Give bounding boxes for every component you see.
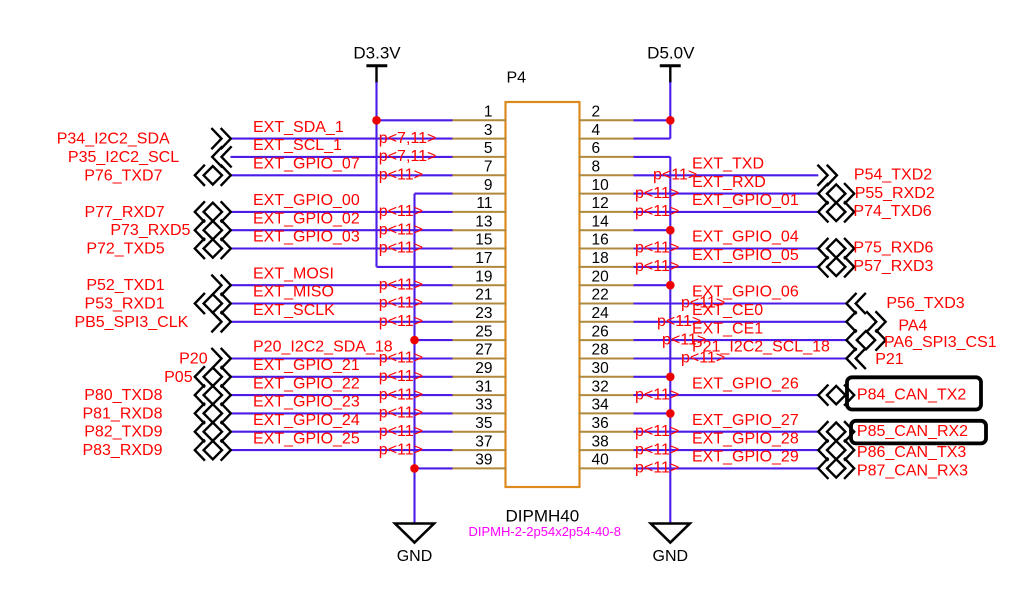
wire pin 23 — [231, 321, 453, 323]
junction D3.3V/pin1 — [372, 116, 381, 125]
pin name label PB5_SPI3_CLK — [74, 314, 188, 331]
pin 7 stub and number — [452, 159, 507, 176]
net label EXT_GPIO_04 — [692, 229, 799, 246]
pin 32 stub and number — [579, 378, 635, 395]
svg-text:EXT_SDA_1: EXT_SDA_1 — [253, 119, 344, 136]
junction left GND/pin39 — [410, 464, 419, 473]
page ref p<11> on pin 33 wire — [379, 405, 423, 422]
port symbol left pin 35 (bidirectional diamond) — [195, 422, 231, 441]
svg-text:P56_TXD3: P56_TXD3 — [886, 295, 964, 312]
svg-text:p<11>: p<11> — [635, 441, 679, 458]
net label EXT_GPIO_05 — [692, 247, 799, 264]
svg-text:EXT_GPIO_28: EXT_GPIO_28 — [692, 430, 799, 447]
page ref p<11> on pin 38 wire — [635, 441, 679, 458]
svg-text:EXT_GPIO_00: EXT_GPIO_00 — [253, 192, 360, 209]
svg-text:p<11>: p<11> — [379, 386, 423, 403]
pin 15 stub and number — [452, 232, 507, 249]
pin 2 stub and number — [579, 104, 635, 121]
svg-text:33: 33 — [475, 397, 492, 414]
wire pin 25 — [415, 339, 453, 341]
pin name label P34_I2C2_SDA — [57, 131, 170, 148]
wire pin 24 — [634, 321, 847, 323]
svg-text:31: 31 — [475, 378, 492, 395]
svg-text:4: 4 — [592, 122, 601, 139]
svg-text:EXT_GPIO_03: EXT_GPIO_03 — [253, 229, 360, 246]
page ref p<11> on pin 22 wire — [681, 295, 725, 312]
pin 30 stub and number — [579, 360, 635, 377]
svg-text:p<11>: p<11> — [662, 331, 706, 348]
pin name label P05 — [164, 369, 193, 386]
page ref p<11> on pin 40 wire — [635, 460, 679, 477]
page ref p<7,11> on pin 3 wire — [379, 130, 437, 147]
svg-text:PB5_SPI3_CLK: PB5_SPI3_CLK — [74, 314, 188, 331]
pin 36 stub and number — [579, 415, 635, 432]
port symbol left pin 33 (bidirectional diamond) — [195, 404, 231, 423]
page ref p<11> on pin 21 wire — [379, 295, 423, 312]
svg-text:EXT_GPIO_27: EXT_GPIO_27 — [692, 412, 799, 429]
pin 8 stub and number — [579, 159, 635, 176]
net label EXT_GPIO_25 — [253, 430, 360, 447]
svg-text:P80_TXD8: P80_TXD8 — [84, 387, 162, 404]
junction right GND/pin20 — [666, 281, 675, 290]
port symbol right pin 32 — [818, 385, 854, 404]
net label EXT_GPIO_27 — [692, 412, 799, 429]
svg-text:P35_I2C2_SCL: P35_I2C2_SCL — [68, 149, 179, 166]
svg-text:p<11>: p<11> — [635, 423, 679, 440]
svg-text:11: 11 — [476, 195, 492, 212]
svg-text:28: 28 — [592, 342, 609, 359]
svg-text:p<11>: p<11> — [635, 258, 679, 275]
wire pin 15 — [231, 247, 453, 249]
pin 37 stub and number — [452, 433, 507, 450]
svg-text:p<11>: p<11> — [635, 460, 679, 477]
pin 29 stub and number — [452, 360, 507, 377]
port symbol right pin 40 — [818, 459, 854, 478]
svg-text:P57_RXD3: P57_RXD3 — [853, 258, 933, 275]
svg-text:5: 5 — [484, 140, 493, 157]
svg-text:p<11>: p<11> — [379, 350, 423, 367]
svg-text:EXT_GPIO_26: EXT_GPIO_26 — [692, 375, 799, 392]
svg-text:13: 13 — [475, 213, 492, 230]
svg-text:21: 21 — [475, 287, 492, 304]
wire pin 9 — [415, 193, 453, 195]
pin name label P80_TXD8 — [84, 387, 162, 404]
net label EXT_MISO — [253, 284, 334, 301]
svg-text:P34_I2C2_SDA: P34_I2C2_SDA — [57, 131, 170, 148]
page ref p<11> on pin 24 wire — [657, 313, 701, 330]
port symbol right pin 26 — [846, 330, 885, 349]
pin 5 stub and number — [452, 140, 507, 157]
port symbol right pin 18 — [818, 257, 854, 276]
wire pin 21 — [231, 302, 453, 304]
pin name label P81_RXD8 — [82, 405, 162, 422]
svg-text:P83_RXD9: P83_RXD9 — [82, 442, 162, 459]
pin name label P75_RXD6 — [853, 240, 933, 257]
pin 14 stub and number — [579, 213, 635, 230]
port symbol left pin 37 (bidirectional diamond) — [195, 440, 231, 459]
pin name label P82_TXD9 — [84, 424, 162, 441]
net label EXT_GPIO_23 — [253, 394, 360, 411]
footprint label DIPMH-2-2p54x2p54-40-8 — [469, 524, 621, 539]
net label EXT_GPIO_01 — [692, 192, 799, 209]
page ref p<11> on pin 19 wire — [379, 276, 423, 293]
pin name label PA4 — [898, 318, 927, 335]
svg-text:PA4: PA4 — [898, 318, 927, 335]
pin 12 stub and number — [579, 195, 635, 212]
page ref p<11> on pin 23 wire — [379, 313, 423, 330]
wire pin 39 — [415, 467, 453, 469]
page ref p<11> on pin 29 wire — [379, 368, 423, 385]
wire pin 11 — [231, 211, 453, 213]
svg-text:26: 26 — [592, 323, 609, 340]
pin name label P53_RXD1 — [85, 296, 165, 313]
pin 1 stub and number — [452, 104, 507, 121]
net label EXT_GPIO_03 — [253, 229, 360, 246]
svg-text:p<11>: p<11> — [653, 167, 697, 184]
svg-text:P52_TXD1: P52_TXD1 — [86, 277, 164, 294]
pin 20 stub and number — [579, 268, 635, 285]
wire pin 40 — [634, 467, 819, 469]
svg-text:p<11>: p<11> — [635, 185, 679, 202]
port symbol left pin 3 (output arrows) — [212, 129, 231, 148]
wire pin 10 — [634, 193, 819, 195]
svg-text:38: 38 — [592, 433, 609, 450]
wire pin 38 — [634, 449, 819, 451]
port symbol left pin 27 (output arrows) — [212, 349, 231, 368]
svg-text:10: 10 — [592, 177, 610, 194]
wire pin 13 — [231, 229, 453, 231]
svg-text:25: 25 — [475, 323, 492, 340]
svg-text:EXT_GPIO_21: EXT_GPIO_21 — [253, 357, 360, 374]
svg-text:P72_TXD5: P72_TXD5 — [86, 241, 164, 258]
net label EXT_TXD — [692, 156, 764, 173]
port symbol left pin 11 (bidirectional diamond) — [195, 202, 231, 221]
pin 3 stub and number — [452, 122, 507, 139]
wire pin 5 — [231, 156, 453, 158]
svg-text:EXT_MOSI: EXT_MOSI — [253, 265, 334, 282]
pin 23 stub and number — [452, 305, 507, 322]
wire pin 28 — [634, 357, 847, 359]
wire pin 37 — [231, 449, 453, 451]
svg-text:p<11>: p<11> — [379, 203, 423, 220]
net label EXT_GPIO_06 — [692, 284, 799, 301]
port symbol right pin 36 — [818, 422, 854, 441]
pin 33 stub and number — [452, 397, 507, 414]
junction right GND/pin14 — [666, 226, 675, 235]
pin 39 stub and number — [452, 452, 507, 469]
svg-text:p<11>: p<11> — [681, 295, 725, 312]
svg-text:EXT_GPIO_29: EXT_GPIO_29 — [692, 449, 799, 466]
svg-text:23: 23 — [475, 305, 492, 322]
svg-text:EXT_GPIO_04: EXT_GPIO_04 — [692, 229, 799, 246]
ground GND left — [395, 524, 434, 566]
svg-text:p<11>: p<11> — [635, 240, 679, 257]
svg-text:35: 35 — [475, 415, 492, 432]
net label EXT_GPIO_22 — [253, 375, 360, 392]
pin 24 stub and number — [579, 305, 635, 322]
svg-text:p<11>: p<11> — [635, 203, 679, 220]
page ref p<11> on pin 37 wire — [379, 441, 423, 458]
svg-text:p<11>: p<11> — [379, 221, 423, 238]
connector P4 body (DIPMH40) — [506, 102, 580, 487]
ground GND right — [651, 524, 690, 566]
net label EXT_GPIO_02 — [253, 210, 360, 227]
junction right GND/pin30 — [666, 373, 675, 382]
pin 19 stub and number — [452, 268, 507, 285]
wire pin 36 — [634, 431, 819, 433]
pin 4 stub and number — [579, 122, 635, 139]
port symbol left pin 15 (bidirectional diamond) — [195, 239, 231, 258]
pin 6 stub and number — [579, 140, 635, 157]
svg-text:P81_RXD8: P81_RXD8 — [82, 405, 162, 422]
svg-text:34: 34 — [592, 397, 610, 414]
pin name label P86_CAN_TX3 — [857, 444, 966, 461]
pin name label P72_TXD5 — [86, 241, 164, 258]
svg-text:P4: P4 — [507, 70, 527, 87]
pin 22 stub and number — [579, 287, 635, 304]
highlight box P84_CAN_TX2 — [847, 377, 981, 409]
svg-text:EXT_MISO: EXT_MISO — [253, 284, 334, 301]
wire pin 32 — [634, 394, 819, 396]
net label EXT_CE1 — [692, 320, 763, 337]
page ref p<11> on pin 8 wire — [653, 167, 697, 184]
port symbol right pin 22 — [846, 294, 865, 313]
net label EXT_GPIO_28 — [692, 430, 799, 447]
page ref p<11> on pin 16 wire — [635, 240, 679, 257]
svg-text:7: 7 — [484, 159, 493, 176]
wire left GND vertical bus (pin9 down to GND) — [413, 194, 415, 524]
wire D3.3V vertical bus (pin1 to pin17) — [375, 82, 377, 267]
pin 28 stub and number — [579, 342, 635, 359]
junction right GND/pin34 — [666, 409, 675, 418]
wire pin 33 — [231, 412, 453, 414]
page ref p<11> on pin 35 wire — [379, 423, 423, 440]
port symbol left pin 5 (input arrows) — [212, 147, 231, 166]
wire pin 8 — [634, 174, 819, 176]
svg-text:P21: P21 — [875, 351, 904, 368]
svg-text:p<11>: p<11> — [379, 276, 423, 293]
net label EXT_GPIO_29 — [692, 449, 799, 466]
net label EXT_SDA_1 — [253, 119, 344, 136]
pin 21 stub and number — [452, 287, 507, 304]
pin 40 stub and number — [579, 452, 635, 469]
svg-text:P86_CAN_TX3: P86_CAN_TX3 — [857, 444, 966, 461]
svg-text:29: 29 — [475, 360, 492, 377]
pin 35 stub and number — [452, 415, 507, 432]
pin name label P83_RXD9 — [82, 442, 162, 459]
wire right GND vertical bus (pin6 down to GND) — [669, 157, 671, 524]
port symbol left pin 21 (bidirectional diamond) — [195, 294, 231, 313]
svg-text:p<11>: p<11> — [379, 441, 423, 458]
pin 11 stub and number — [452, 195, 507, 212]
svg-text:DIPMH-2-2p54x2p54-40-8: DIPMH-2-2p54x2p54-40-8 — [469, 524, 621, 539]
port symbol right pin 8 — [818, 166, 837, 185]
svg-text:p<11>: p<11> — [379, 423, 423, 440]
page ref p<11> on pin 7 wire — [379, 167, 423, 184]
page ref p<11> on pin 28 wire — [681, 350, 725, 367]
junction D5.0V/pin2 — [666, 116, 675, 125]
pin name label P84_CAN_TX2 — [857, 386, 966, 403]
svg-text:GND: GND — [653, 548, 689, 565]
svg-text:DIPMH40: DIPMH40 — [506, 507, 580, 526]
svg-text:17: 17 — [475, 250, 492, 267]
wire pin 30 — [634, 376, 671, 378]
power flag D3.3V — [353, 44, 401, 84]
svg-text:P76_TXD7: P76_TXD7 — [84, 167, 162, 184]
svg-text:P82_TXD9: P82_TXD9 — [84, 424, 162, 441]
svg-text:p<11>: p<11> — [379, 240, 423, 257]
pin 34 stub and number — [579, 397, 635, 414]
pin 38 stub and number — [579, 433, 635, 450]
wire pin 34 — [634, 412, 671, 414]
pin name label P20 — [179, 351, 208, 368]
pin name label P35_I2C2_SCL — [68, 149, 179, 166]
pin 13 stub and number — [452, 213, 507, 230]
svg-text:30: 30 — [592, 360, 610, 377]
svg-text:P54_TXD2: P54_TXD2 — [854, 167, 932, 184]
svg-text:P20: P20 — [179, 351, 208, 368]
net label P20_I2C2_SDA_18 — [253, 339, 393, 356]
pin 17 stub and number — [452, 250, 507, 267]
svg-text:32: 32 — [592, 378, 609, 395]
net label EXT_MOSI — [253, 265, 334, 282]
pin name label P74_TXD6 — [853, 203, 931, 220]
page ref p<7,11> on pin 5 wire — [379, 148, 437, 165]
net label EXT_GPIO_26 — [692, 375, 799, 392]
port symbol right pin 10 — [818, 184, 854, 203]
svg-text:P55_RXD2: P55_RXD2 — [855, 185, 935, 202]
svg-text:9: 9 — [484, 177, 493, 194]
svg-text:p<11>: p<11> — [379, 167, 423, 184]
page ref p<11> on pin 31 wire — [379, 386, 423, 403]
svg-text:EXT_GPIO_05: EXT_GPIO_05 — [692, 247, 799, 264]
svg-text:18: 18 — [592, 250, 609, 267]
pin 27 stub and number — [452, 342, 507, 359]
page ref p<11> on pin 26 wire — [662, 331, 706, 348]
pin 10 stub and number — [579, 177, 635, 194]
svg-text:39: 39 — [475, 452, 492, 469]
wire pin 4 — [634, 138, 671, 140]
svg-text:16: 16 — [592, 232, 609, 249]
wire pin 22 — [634, 302, 847, 304]
svg-text:GND: GND — [397, 548, 433, 565]
wire pin 1 — [377, 119, 453, 121]
svg-text:EXT_GPIO_25: EXT_GPIO_25 — [253, 430, 360, 447]
pin name label P21 — [875, 351, 904, 368]
highlight box P85_CAN_RX2 — [851, 421, 986, 444]
page ref p<11> on pin 12 wire — [635, 203, 679, 220]
wire pin 20 — [634, 284, 671, 286]
junction left GND/pin25 — [410, 336, 419, 345]
svg-text:1: 1 — [484, 104, 493, 121]
net label EXT_CE0 — [692, 302, 763, 319]
page ref p<11> on pin 13 wire — [379, 221, 423, 238]
wire pin 35 — [231, 431, 453, 433]
svg-text:27: 27 — [475, 342, 492, 359]
pin name label PA6_SPI3_CS1 — [884, 334, 997, 351]
page ref p<11> on pin 36 wire — [635, 423, 679, 440]
pin name label P55_RXD2 — [855, 185, 935, 202]
value DIPMH40 — [506, 507, 580, 526]
svg-text:p<11>: p<11> — [657, 313, 701, 330]
svg-text:8: 8 — [592, 159, 601, 176]
svg-text:12: 12 — [592, 195, 609, 212]
svg-text:P05: P05 — [164, 369, 193, 386]
pin name label P52_TXD1 — [86, 277, 164, 294]
svg-text:24: 24 — [592, 305, 610, 322]
svg-text:P53_RXD1: P53_RXD1 — [85, 296, 165, 313]
svg-text:19: 19 — [475, 268, 492, 285]
pin name label P77_RXD7 — [85, 204, 165, 221]
svg-text:EXT_TXD: EXT_TXD — [692, 156, 764, 173]
port symbol right pin 16 — [818, 239, 854, 258]
svg-text:37: 37 — [475, 433, 492, 450]
svg-text:EXT_GPIO_02: EXT_GPIO_02 — [253, 210, 360, 227]
svg-text:EXT_GPIO_22: EXT_GPIO_22 — [253, 375, 360, 392]
pin name label P57_RXD3 — [853, 258, 933, 275]
pin 31 stub and number — [452, 378, 507, 395]
svg-text:EXT_SCL_1: EXT_SCL_1 — [253, 137, 342, 154]
svg-text:40: 40 — [592, 452, 610, 469]
port symbol left pin 19 (output arrows) — [212, 276, 231, 295]
net label EXT_SCL_1 — [253, 137, 342, 154]
pin 18 stub and number — [579, 250, 635, 267]
designator P4 — [507, 70, 527, 87]
net label P21_I2C2_SCL_18 — [692, 339, 830, 356]
svg-text:PA6_SPI3_CS1: PA6_SPI3_CS1 — [884, 334, 997, 351]
pin name label P76_TXD7 — [84, 167, 162, 184]
pin name label P54_TXD2 — [854, 167, 932, 184]
svg-text:EXT_GPIO_01: EXT_GPIO_01 — [692, 192, 799, 209]
port symbol right pin 28 — [846, 349, 865, 368]
port symbol left pin 29 (bidirectional diamond) — [195, 367, 231, 386]
svg-text:p<11>: p<11> — [681, 350, 725, 367]
page ref p<11> on pin 32 wire — [635, 386, 679, 403]
svg-text:EXT_SCLK: EXT_SCLK — [253, 302, 335, 319]
svg-text:p<7,11>: p<7,11> — [379, 130, 437, 147]
wire pin 29 — [231, 376, 453, 378]
wire pin 31 — [231, 394, 453, 396]
pin name label P56_TXD3 — [886, 295, 964, 312]
svg-text:p<11>: p<11> — [379, 295, 423, 312]
wire pin 7 — [231, 174, 453, 176]
pin 26 stub and number — [579, 323, 635, 340]
svg-text:p<11>: p<11> — [379, 313, 423, 330]
pin name label P87_CAN_RX3 — [857, 462, 968, 479]
power flag D5.0V — [647, 44, 695, 84]
pin name label P85_CAN_RX2 — [857, 423, 968, 440]
port symbol left pin 7 (bidirectional diamond) — [195, 166, 231, 185]
net label EXT_GPIO_00 — [253, 192, 360, 209]
wire pin 2 — [634, 119, 671, 121]
net label EXT_RXD — [692, 174, 766, 191]
svg-text:22: 22 — [592, 287, 609, 304]
wire pin 6 — [634, 156, 671, 158]
svg-text:2: 2 — [592, 104, 601, 121]
svg-text:14: 14 — [592, 213, 610, 230]
page ref p<11> on pin 27 wire — [379, 350, 423, 367]
page ref p<11> on pin 15 wire — [379, 240, 423, 257]
svg-text:P77_RXD7: P77_RXD7 — [85, 204, 165, 221]
wire D5.0V vertical (pin2 to pin4) — [669, 82, 671, 139]
pin name label P73_RXD5 — [110, 222, 190, 239]
svg-text:36: 36 — [592, 415, 609, 432]
wire pin 26 — [634, 339, 847, 341]
svg-text:p<11>: p<11> — [635, 386, 679, 403]
svg-text:P85_CAN_RX2: P85_CAN_RX2 — [857, 423, 968, 440]
pin 16 stub and number — [579, 232, 635, 249]
svg-text:D3.3V: D3.3V — [353, 44, 401, 63]
